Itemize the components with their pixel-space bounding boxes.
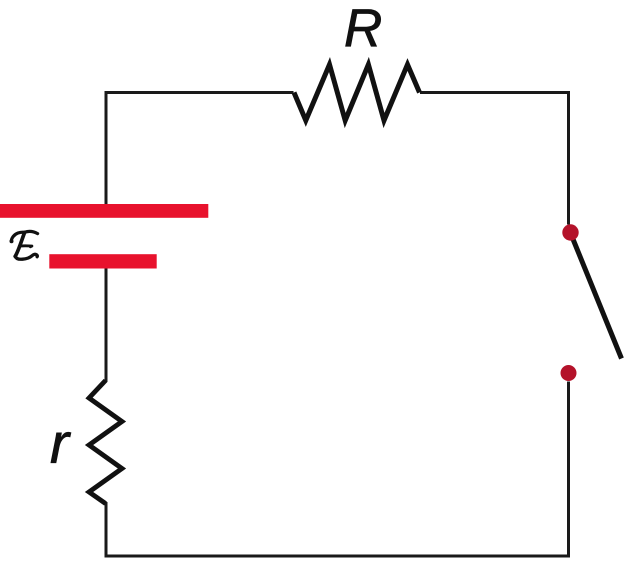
svg-text:R: R	[344, 0, 382, 58]
svg-text:r: r	[50, 412, 71, 476]
